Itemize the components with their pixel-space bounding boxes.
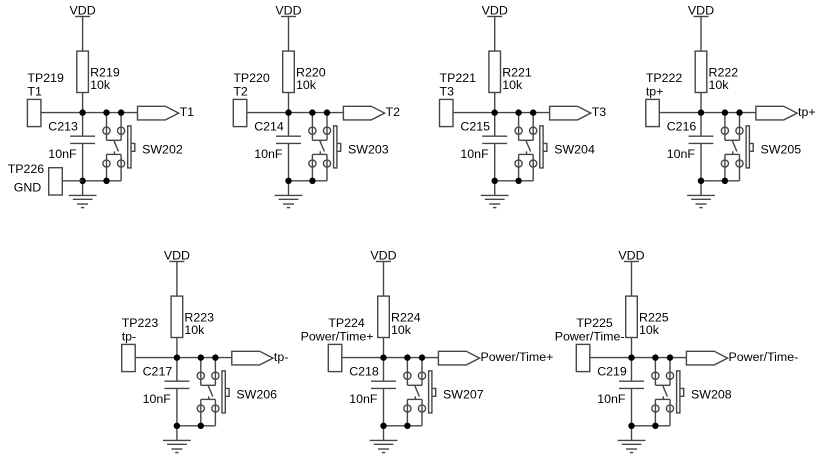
svg-text:SW202: SW202 (142, 142, 183, 156)
svg-text:10k: 10k (184, 323, 205, 337)
svg-text:10k: 10k (709, 78, 730, 92)
svg-text:VDD: VDD (618, 249, 644, 263)
svg-text:VDD: VDD (482, 4, 508, 18)
svg-text:T1: T1 (180, 105, 195, 119)
svg-text:10nF: 10nF (667, 147, 696, 161)
svg-text:C214: C214 (254, 119, 284, 133)
svg-text:Power/Time+: Power/Time+ (481, 350, 554, 364)
svg-text:SW206: SW206 (236, 387, 277, 401)
svg-text:VDD: VDD (370, 249, 396, 263)
svg-text:tp+: tp+ (646, 85, 664, 99)
svg-text:C216: C216 (667, 119, 697, 133)
svg-text:TP219: TP219 (27, 71, 64, 85)
svg-text:C215: C215 (460, 119, 490, 133)
svg-text:10k: 10k (90, 78, 111, 92)
svg-text:TP224: TP224 (328, 316, 365, 330)
svg-text:TP221: TP221 (440, 71, 477, 85)
svg-text:tp-: tp- (274, 350, 288, 364)
svg-text:VDD: VDD (164, 249, 190, 263)
svg-text:VDD: VDD (688, 4, 714, 18)
svg-text:C219: C219 (597, 364, 627, 378)
svg-text:T2: T2 (233, 85, 248, 99)
svg-text:10nF: 10nF (597, 392, 626, 406)
svg-text:SW204: SW204 (554, 142, 595, 156)
svg-text:TP220: TP220 (233, 71, 270, 85)
svg-text:10k: 10k (296, 78, 317, 92)
svg-text:10nF: 10nF (349, 392, 378, 406)
svg-text:TP225: TP225 (576, 316, 613, 330)
svg-text:10nF: 10nF (143, 392, 172, 406)
svg-text:10nF: 10nF (48, 147, 77, 161)
svg-text:TP223: TP223 (122, 316, 159, 330)
svg-text:tp-: tp- (122, 330, 136, 344)
svg-text:Power/Time-: Power/Time- (729, 350, 799, 364)
svg-text:10k: 10k (502, 78, 523, 92)
svg-text:T3: T3 (592, 105, 607, 119)
svg-text:GND: GND (14, 181, 42, 195)
svg-text:10k: 10k (639, 323, 660, 337)
svg-text:Power/Time-: Power/Time- (555, 330, 625, 344)
svg-text:VDD: VDD (275, 4, 301, 18)
svg-text:10nF: 10nF (254, 147, 283, 161)
svg-text:10k: 10k (391, 323, 412, 337)
svg-text:T2: T2 (386, 105, 401, 119)
svg-text:SW208: SW208 (691, 387, 732, 401)
svg-text:C218: C218 (349, 364, 379, 378)
svg-text:SW205: SW205 (761, 142, 802, 156)
svg-text:Power/Time+: Power/Time+ (301, 330, 374, 344)
svg-text:SW207: SW207 (443, 387, 484, 401)
svg-text:10nF: 10nF (460, 147, 489, 161)
svg-text:TP226: TP226 (8, 162, 45, 176)
svg-text:VDD: VDD (70, 4, 96, 18)
svg-text:SW203: SW203 (348, 142, 389, 156)
svg-text:C217: C217 (143, 364, 173, 378)
svg-text:T3: T3 (440, 85, 455, 99)
svg-text:TP222: TP222 (646, 71, 683, 85)
svg-text:T1: T1 (27, 85, 42, 99)
svg-text:tp+: tp+ (798, 105, 816, 119)
svg-text:C213: C213 (48, 119, 78, 133)
